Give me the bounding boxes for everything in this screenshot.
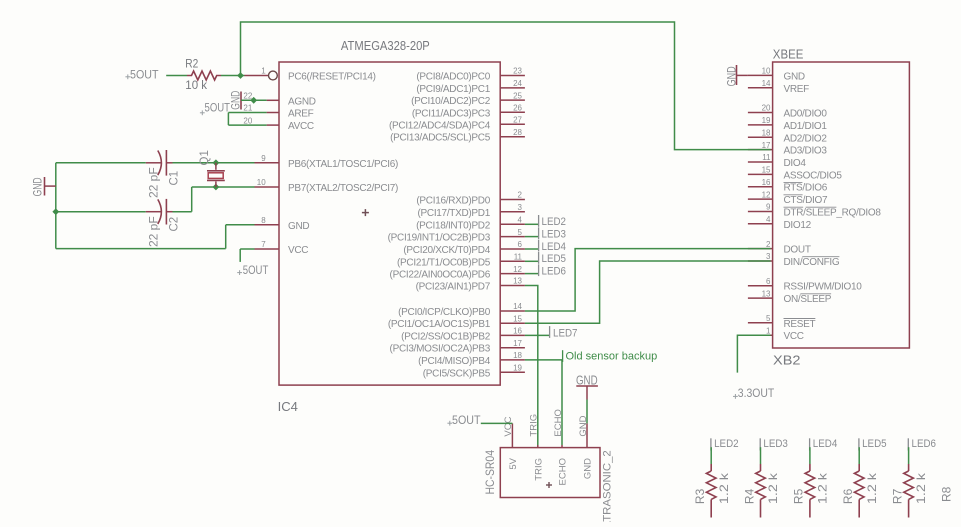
svg-text:AD3/DIO3: AD3/DIO3 xyxy=(784,146,828,157)
svg-text:AD0/DIO0: AD0/DIO0 xyxy=(784,109,828,120)
svg-text:VCC: VCC xyxy=(784,331,804,342)
svg-text:6: 6 xyxy=(518,240,523,249)
svg-text:LED5: LED5 xyxy=(542,253,567,265)
svg-text:26: 26 xyxy=(513,104,522,113)
svg-text:10: 10 xyxy=(762,67,771,76)
svg-text:18: 18 xyxy=(513,351,522,360)
svg-text:TRIG: TRIG xyxy=(533,458,544,481)
svg-text:R8: R8 xyxy=(939,486,953,502)
svg-text:ECHO: ECHO xyxy=(558,458,569,485)
svg-text:(PCI19/INT1/OC2B)PD3: (PCI19/INT1/OC2B)PD3 xyxy=(388,233,491,244)
svg-text:5OUT: 5OUT xyxy=(243,263,269,277)
svg-text:AGND: AGND xyxy=(288,96,316,107)
svg-text:1.2 k: 1.2 k xyxy=(914,472,928,504)
svg-text:GND: GND xyxy=(288,221,309,232)
svg-text:22 pF: 22 pF xyxy=(147,167,161,198)
svg-text:(PCI10/ADC2)PC2: (PCI10/ADC2)PC2 xyxy=(411,96,491,107)
svg-text:LED2: LED2 xyxy=(542,216,567,228)
svg-text:16: 16 xyxy=(762,178,771,187)
svg-text:(PCI17/TXD)PD1: (PCI17/TXD)PD1 xyxy=(418,208,491,219)
svg-text:21: 21 xyxy=(243,104,252,113)
svg-text:R5: R5 xyxy=(792,488,806,504)
svg-text:3.3OUT: 3.3OUT xyxy=(738,386,775,400)
svg-text:Q1: Q1 xyxy=(199,150,211,165)
svg-text:19: 19 xyxy=(762,116,771,125)
svg-text:7: 7 xyxy=(261,240,266,249)
svg-text:RESET: RESET xyxy=(784,319,816,330)
svg-text:AREF: AREF xyxy=(288,109,314,120)
svg-text:18: 18 xyxy=(762,129,771,138)
svg-text:R6: R6 xyxy=(841,488,855,504)
svg-text:15: 15 xyxy=(762,166,771,175)
svg-text:LED6: LED6 xyxy=(912,438,937,450)
svg-text:8: 8 xyxy=(261,216,266,225)
svg-text:LED6: LED6 xyxy=(542,266,567,278)
svg-text:GND: GND xyxy=(231,91,243,110)
svg-text:(PCI4/MISO)PB4: (PCI4/MISO)PB4 xyxy=(418,356,491,367)
svg-text:1: 1 xyxy=(261,67,266,76)
svg-text:(PCI23/AIN1)PD7: (PCI23/AIN1)PD7 xyxy=(416,282,491,293)
svg-text:10 k: 10 k xyxy=(185,80,207,92)
svg-text:Old sensor backup: Old sensor backup xyxy=(566,351,658,363)
svg-text:ASSOC/DIO5: ASSOC/DIO5 xyxy=(784,170,843,181)
svg-text:(PCI0/ICP/CLKO)PB0: (PCI0/ICP/CLKO)PB0 xyxy=(398,307,491,318)
svg-text:11: 11 xyxy=(514,253,523,262)
svg-text:C1: C1 xyxy=(168,171,180,186)
svg-text:R2: R2 xyxy=(185,57,198,71)
svg-text:5: 5 xyxy=(518,228,523,237)
svg-text:5OUT: 5OUT xyxy=(130,68,159,82)
svg-text:1: 1 xyxy=(766,326,771,335)
svg-text:R3: R3 xyxy=(693,488,707,504)
svg-text:14: 14 xyxy=(762,79,771,88)
svg-text:VREF: VREF xyxy=(784,84,810,95)
svg-text:DIO12: DIO12 xyxy=(784,220,812,231)
svg-text:VCC: VCC xyxy=(288,245,308,256)
svg-text:(PCI2/SS/OC1B)PB2: (PCI2/SS/OC1B)PB2 xyxy=(401,331,491,342)
svg-text:2: 2 xyxy=(766,240,771,249)
svg-text:11: 11 xyxy=(762,153,771,162)
svg-text:PC6(/RESET/PCI14): PC6(/RESET/PCI14) xyxy=(288,72,376,83)
svg-text:(PCI16/RXD)PD0: (PCI16/RXD)PD0 xyxy=(416,196,490,207)
svg-text:DTR/SLEEP_RQ/DIO8: DTR/SLEEP_RQ/DIO8 xyxy=(784,208,882,219)
svg-text:23: 23 xyxy=(513,67,522,76)
svg-text:22 pF: 22 pF xyxy=(147,216,161,247)
svg-text:(PCI18/INT0)PD2: (PCI18/INT0)PD2 xyxy=(416,220,491,231)
svg-text:(PCI1/OC1A/OC1S)PB1: (PCI1/OC1A/OC1S)PB1 xyxy=(388,319,491,330)
svg-text:GND: GND xyxy=(784,71,805,82)
svg-text:(PCI11/ADC3)PC3: (PCI11/ADC3)PC3 xyxy=(412,108,491,119)
svg-text:DIN/CONFIG: DIN/CONFIG xyxy=(784,257,840,268)
svg-text:1.2 k: 1.2 k xyxy=(766,472,780,504)
svg-text:ECHO: ECHO xyxy=(553,409,564,436)
svg-text:ATMEGA328-20P: ATMEGA328-20P xyxy=(341,39,430,53)
svg-text:GND: GND xyxy=(33,177,45,196)
svg-text:12: 12 xyxy=(513,265,522,274)
svg-text:20: 20 xyxy=(243,116,252,125)
svg-text:1.2 k: 1.2 k xyxy=(717,472,731,504)
svg-text:28: 28 xyxy=(513,128,522,137)
svg-text:IC4: IC4 xyxy=(278,400,298,414)
svg-text:AVCC: AVCC xyxy=(288,121,314,132)
svg-text:AD1/DIO1: AD1/DIO1 xyxy=(784,121,828,132)
svg-text:LED5: LED5 xyxy=(862,438,887,450)
svg-text:(PCI3/MOSI/OC2A)PB3: (PCI3/MOSI/OC2A)PB3 xyxy=(390,344,491,355)
svg-text:17: 17 xyxy=(762,141,771,150)
svg-text:DOUT: DOUT xyxy=(784,245,811,256)
svg-text:13: 13 xyxy=(513,277,522,286)
svg-text:C2: C2 xyxy=(168,217,180,232)
svg-text:GND: GND xyxy=(725,66,739,86)
svg-text:1.2 k: 1.2 k xyxy=(865,472,879,504)
svg-text:22: 22 xyxy=(243,92,252,101)
svg-text:TRIG: TRIG xyxy=(529,414,540,437)
svg-text:12: 12 xyxy=(762,190,771,199)
svg-text:2: 2 xyxy=(518,191,523,200)
svg-text:XBEE: XBEE xyxy=(773,48,804,62)
svg-text:(PCI8/ADC0)PC0: (PCI8/ADC0)PC0 xyxy=(416,72,490,83)
svg-text:6: 6 xyxy=(766,277,771,286)
svg-text:DIO4: DIO4 xyxy=(784,158,807,169)
svg-text:13: 13 xyxy=(762,289,771,298)
svg-text:4: 4 xyxy=(518,216,523,225)
svg-text:XB2: XB2 xyxy=(773,354,801,368)
svg-text:R7: R7 xyxy=(890,488,904,504)
svg-text:ON/SLEEP: ON/SLEEP xyxy=(784,294,832,305)
svg-text:5OUT: 5OUT xyxy=(205,101,231,115)
svg-text:24: 24 xyxy=(513,79,522,88)
svg-text:14: 14 xyxy=(513,302,522,311)
svg-text:PB6(XTAL1/TOSC1/PCI6): PB6(XTAL1/TOSC1/PCI6) xyxy=(288,159,398,170)
svg-text:VCC: VCC xyxy=(503,416,514,436)
svg-text:15: 15 xyxy=(513,314,522,323)
svg-text:R4: R4 xyxy=(742,488,756,504)
svg-text:LED4: LED4 xyxy=(542,241,567,253)
svg-text:LED4: LED4 xyxy=(813,438,838,450)
svg-text:27: 27 xyxy=(513,116,522,125)
svg-text:19: 19 xyxy=(513,364,522,373)
svg-text:HC-SR04: HC-SR04 xyxy=(483,450,497,495)
svg-text:9: 9 xyxy=(766,203,771,212)
svg-text:LED3: LED3 xyxy=(542,229,567,241)
svg-text:(PCI5/SCK)PB5: (PCI5/SCK)PB5 xyxy=(423,368,491,379)
svg-text:5OUT: 5OUT xyxy=(452,413,481,427)
svg-text:LED2: LED2 xyxy=(714,438,739,450)
svg-text:ULTRASONIC_2: ULTRASONIC_2 xyxy=(602,450,614,522)
svg-text:GND: GND xyxy=(583,458,594,479)
svg-text:4: 4 xyxy=(766,215,771,224)
svg-text:AD2/DIO2: AD2/DIO2 xyxy=(784,133,828,144)
svg-text:(PCI21/T1/OC0B)PD5: (PCI21/T1/OC0B)PD5 xyxy=(397,257,491,268)
svg-text:9: 9 xyxy=(261,154,266,163)
svg-text:3: 3 xyxy=(766,252,771,261)
svg-text:LED7: LED7 xyxy=(553,327,578,339)
svg-text:(PCI20/XCK/T0)PD4: (PCI20/XCK/T0)PD4 xyxy=(403,245,490,256)
svg-text:5: 5 xyxy=(766,314,771,323)
svg-text:(PCI12/ADC4/SDA)PC4: (PCI12/ADC4/SDA)PC4 xyxy=(389,120,491,131)
svg-text:(PCI22/AIN0OC0A)PD6: (PCI22/AIN0OC0A)PD6 xyxy=(390,270,491,281)
svg-text:RSSI/PWM/DIO10: RSSI/PWM/DIO10 xyxy=(784,282,863,293)
svg-text:20: 20 xyxy=(762,104,771,113)
svg-text:25: 25 xyxy=(513,91,522,100)
svg-text:RTS/DIO6: RTS/DIO6 xyxy=(784,183,828,194)
svg-text:10: 10 xyxy=(257,178,266,187)
svg-text:PB7(XTAL2/TOSC2/PCI7): PB7(XTAL2/TOSC2/PCI7) xyxy=(288,183,398,194)
svg-text:1.2 k: 1.2 k xyxy=(816,472,830,504)
svg-text:CTS/DIO7: CTS/DIO7 xyxy=(784,195,828,206)
svg-text:5V: 5V xyxy=(508,457,519,469)
svg-text:17: 17 xyxy=(513,339,522,348)
svg-text:(PCI9/ADC1)PC1: (PCI9/ADC1)PC1 xyxy=(416,84,490,95)
svg-text:(PCI13/ADC5/SCL)PC5: (PCI13/ADC5/SCL)PC5 xyxy=(390,133,491,144)
svg-text:16: 16 xyxy=(513,327,522,336)
svg-text:3: 3 xyxy=(518,203,523,212)
svg-text:LED3: LED3 xyxy=(763,438,788,450)
